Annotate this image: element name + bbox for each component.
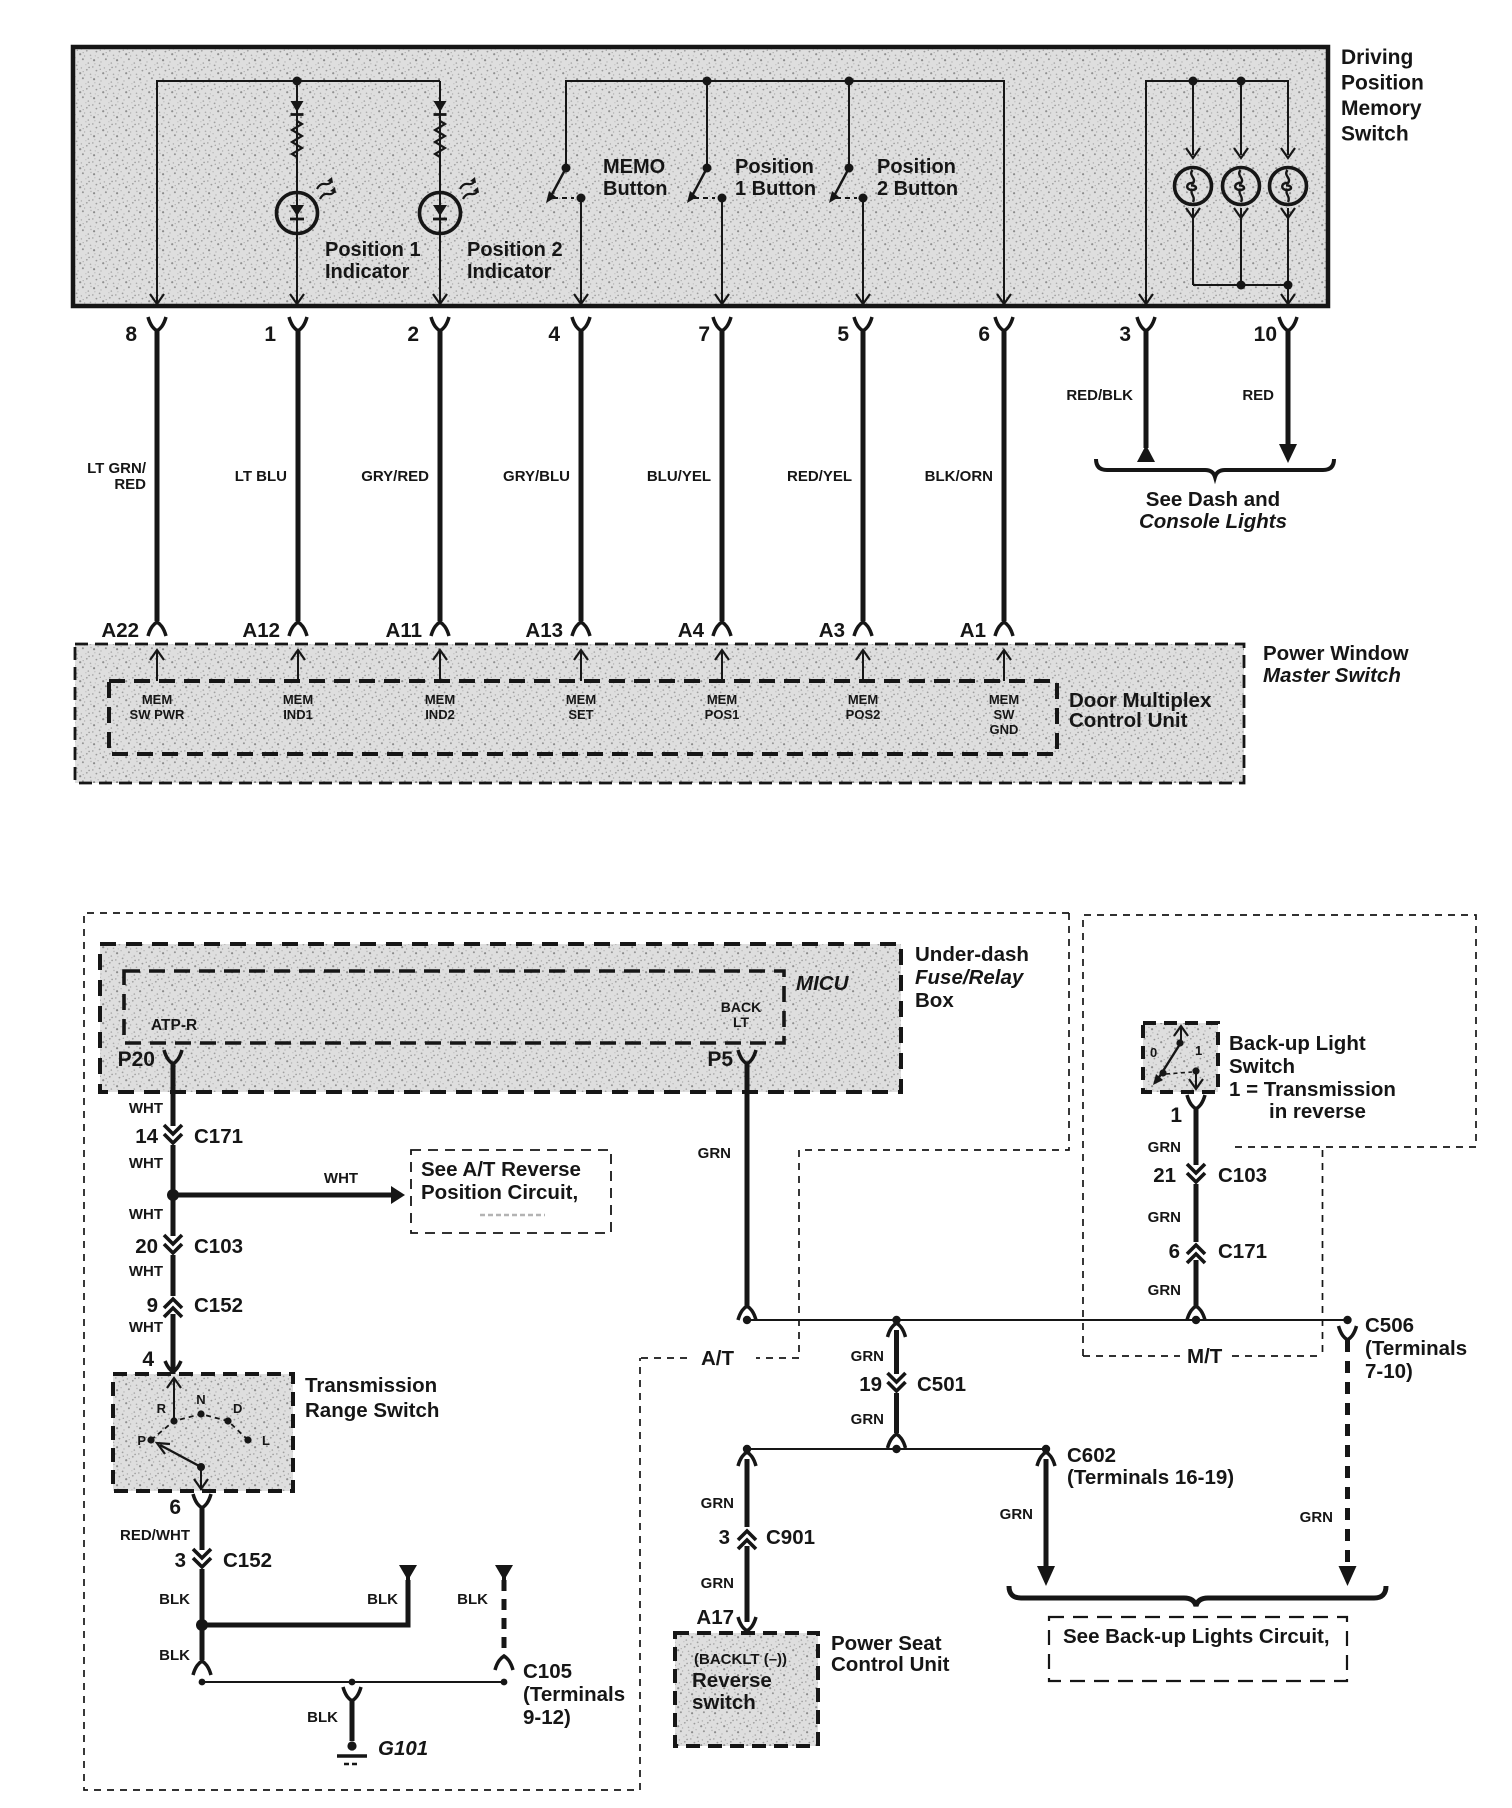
pin 1 wire LT BLU xyxy=(235,317,307,642)
ground G101 xyxy=(337,1741,367,1764)
label back-up light switch xyxy=(1229,1032,1396,1123)
pin A4 MEM POS1 xyxy=(705,650,740,722)
wire pin10 arrow xyxy=(1281,294,1295,304)
svg-text:9-12): 9-12) xyxy=(523,1706,571,1729)
pin 1 back-up switch xyxy=(1170,1095,1205,1127)
junction rail wire xyxy=(743,1316,1352,1324)
svg-text:A22: A22 xyxy=(101,619,139,642)
svg-text:GRY/RED: GRY/RED xyxy=(361,468,429,485)
svg-text:C171: C171 xyxy=(1218,1240,1267,1263)
svg-text:GRN: GRN xyxy=(1300,1509,1333,1526)
svg-text:GRN: GRN xyxy=(1148,1282,1181,1299)
svg-text:0: 0 xyxy=(1150,1045,1157,1060)
pin 2 wire GRY/RED xyxy=(361,317,449,642)
svg-text:8: 8 xyxy=(125,323,137,346)
svg-text:2: 2 xyxy=(407,323,419,346)
svg-text:C602: C602 xyxy=(1067,1444,1116,1467)
svg-text:LT GRN/: LT GRN/ xyxy=(87,460,147,477)
svg-text:L: L xyxy=(262,1433,270,1448)
svg-text:14: 14 xyxy=(135,1125,158,1148)
label C105 terminals 9-12 xyxy=(523,1660,625,1729)
svg-text:SW PWR: SW PWR xyxy=(130,707,185,722)
pin 8 wire LT GRN/RED xyxy=(87,317,166,642)
svg-text:C152: C152 xyxy=(223,1549,272,1572)
label BACKLT reverse switch xyxy=(692,1651,787,1714)
switch MEMO button xyxy=(546,164,588,307)
label power window master switch xyxy=(1263,642,1409,687)
svg-text:MEM: MEM xyxy=(142,692,172,707)
wire GRN P5 down xyxy=(698,1063,756,1320)
svg-text:RED/YEL: RED/YEL xyxy=(787,468,852,485)
svg-text:A17: A17 xyxy=(696,1606,734,1629)
svg-text:BLK: BLK xyxy=(457,1591,488,1608)
svg-text:M/T: M/T xyxy=(1187,1345,1223,1368)
svg-text:A/T: A/T xyxy=(701,1347,735,1370)
svg-text:GRN: GRN xyxy=(1000,1506,1033,1523)
svg-text:MEM: MEM xyxy=(425,692,455,707)
svg-text:Memory: Memory xyxy=(1341,97,1422,120)
svg-text:A3: A3 xyxy=(819,619,845,642)
svg-text:C171: C171 xyxy=(194,1125,243,1148)
back-up light switch contacts xyxy=(1150,1026,1203,1089)
see A/T reverse position circuit box xyxy=(411,1150,611,1233)
svg-text:7: 7 xyxy=(698,323,710,346)
pin 7 wire BLU/YEL xyxy=(647,317,731,642)
svg-text:BLK: BLK xyxy=(367,1591,398,1608)
svg-text:P20: P20 xyxy=(118,1048,155,1071)
wire BLK dashed branch C105 xyxy=(457,1565,513,1670)
door multiplex control unit box xyxy=(109,681,1057,754)
svg-text:Range Switch: Range Switch xyxy=(305,1399,439,1422)
connector C103 pin21 xyxy=(1153,1164,1267,1187)
resistor indicator1 xyxy=(292,121,302,157)
svg-text:POS1: POS1 xyxy=(705,707,740,722)
svg-text:Position 2: Position 2 xyxy=(467,239,563,261)
svg-text:GRY/BLU: GRY/BLU xyxy=(503,468,570,485)
svg-text:SET: SET xyxy=(568,707,593,722)
svg-text:WHT: WHT xyxy=(129,1206,163,1223)
pin 6 below TRS xyxy=(169,1494,211,1519)
wire GRN C501 to rail2 xyxy=(851,1393,906,1448)
svg-text:WHT: WHT xyxy=(129,1319,163,1336)
svg-text:LT: LT xyxy=(733,1014,750,1030)
svg-text:9: 9 xyxy=(147,1294,158,1317)
pin 4 wire GRY/BLU xyxy=(503,317,590,642)
svg-text:MEM: MEM xyxy=(848,692,878,707)
pin 3 wire RED/BLK xyxy=(1066,317,1155,462)
svg-text:A11: A11 xyxy=(386,619,422,642)
brace see dash and console lights xyxy=(1096,459,1334,477)
svg-text:MEM: MEM xyxy=(283,692,313,707)
svg-text:BACK: BACK xyxy=(721,999,761,1015)
svg-text:D: D xyxy=(233,1401,242,1416)
svg-text:Fuse/Relay: Fuse/Relay xyxy=(915,966,1025,989)
node lamp rail 1 xyxy=(1189,77,1198,86)
node rail junction pin1 xyxy=(293,77,302,86)
svg-text:GRN: GRN xyxy=(1148,1139,1181,1156)
svg-text:See Back-up Lights Circuit,: See Back-up Lights Circuit, xyxy=(1063,1625,1330,1648)
svg-text:WHT: WHT xyxy=(129,1263,163,1280)
brace see back-up lights circuit xyxy=(1009,1586,1386,1606)
label BACK LT xyxy=(721,999,761,1030)
svg-text:Switch: Switch xyxy=(1341,123,1409,146)
see back-up lights circuit box xyxy=(1049,1617,1347,1681)
svg-text:Reverse: Reverse xyxy=(692,1669,772,1692)
pin A12 MEM IND1 xyxy=(283,650,313,722)
lamp 3 xyxy=(1270,148,1307,285)
svg-text:3: 3 xyxy=(175,1549,186,1572)
svg-text:C152: C152 xyxy=(194,1294,243,1317)
svg-text:Back-up Light: Back-up Light xyxy=(1229,1032,1366,1055)
transmission range switch contacts xyxy=(137,1378,270,1490)
svg-text:(Terminals 16-19): (Terminals 16-19) xyxy=(1067,1466,1234,1489)
connector C171 pin6 xyxy=(1169,1240,1267,1263)
svg-text:WHT: WHT xyxy=(324,1170,358,1187)
connector C501 pin19 xyxy=(859,1373,966,1396)
node lamp bottom rail xyxy=(1237,281,1246,290)
C105 connector line xyxy=(199,1679,508,1686)
svg-text:20: 20 xyxy=(135,1235,158,1258)
node lamp rail 2 xyxy=(1237,77,1246,86)
connector C152 pin3 xyxy=(175,1549,272,1572)
svg-text:P5: P5 xyxy=(707,1048,733,1071)
svg-text:1 = Transmission: 1 = Transmission xyxy=(1229,1078,1396,1101)
svg-text:See Dash and: See Dash and xyxy=(1146,488,1280,511)
svg-text:5: 5 xyxy=(837,323,849,346)
svg-text:C901: C901 xyxy=(766,1526,815,1549)
wire WHT C152 to TRS xyxy=(129,1314,181,1374)
svg-text:GRN: GRN xyxy=(698,1145,731,1162)
svg-text:RED/WHT: RED/WHT xyxy=(120,1527,190,1544)
MICU box xyxy=(124,971,784,1043)
label see dash and console lights xyxy=(1139,488,1287,533)
wire pin6 arrow xyxy=(997,294,1011,304)
rail2 wire xyxy=(743,1445,1050,1453)
svg-text:C501: C501 xyxy=(917,1373,966,1396)
svg-text:19: 19 xyxy=(859,1373,882,1396)
svg-text:Power Window: Power Window xyxy=(1263,642,1409,665)
svg-text:2 Button: 2 Button xyxy=(877,178,958,200)
wire GRN rail2 to C901 xyxy=(701,1452,756,1527)
pin A13 MEM SET xyxy=(566,650,596,722)
svg-text:GND: GND xyxy=(990,722,1019,737)
pin 5 wire RED/YEL xyxy=(787,317,872,642)
wire WHT C171 to junction xyxy=(129,1145,173,1195)
wire: indicator 2 branch xyxy=(439,81,441,306)
label position 2 button xyxy=(877,156,958,200)
pin 10 wire RED xyxy=(1242,317,1297,463)
svg-text:A1: A1 xyxy=(960,619,986,642)
svg-text:N: N xyxy=(196,1392,205,1407)
svg-text:GRN: GRN xyxy=(701,1495,734,1512)
svg-text:1: 1 xyxy=(264,323,276,346)
svg-text:Position: Position xyxy=(735,156,814,178)
label position 1 indicator xyxy=(325,239,421,283)
svg-text:Position 1: Position 1 xyxy=(325,239,421,261)
svg-text:4: 4 xyxy=(142,1348,154,1371)
label position 2 indicator xyxy=(467,239,563,283)
svg-text:3: 3 xyxy=(1119,323,1131,346)
resistor indicator2 xyxy=(435,121,445,157)
svg-text:Console Lights: Console Lights xyxy=(1139,510,1287,533)
switch position 2 button xyxy=(829,81,870,306)
svg-text:MICU: MICU xyxy=(796,972,850,995)
svg-text:BLK: BLK xyxy=(159,1591,190,1608)
svg-text:Control Unit: Control Unit xyxy=(831,1653,950,1676)
label driving position memory switch xyxy=(1341,46,1424,146)
wire RED/WHT xyxy=(120,1507,202,1550)
svg-text:GRN: GRN xyxy=(1148,1209,1181,1226)
wire WHT C103 to C152 xyxy=(129,1255,173,1296)
svg-text:C103: C103 xyxy=(1218,1164,1267,1187)
svg-text:Under-dash: Under-dash xyxy=(915,943,1029,966)
ground wire BLK xyxy=(307,1687,361,1741)
svg-text:1: 1 xyxy=(1195,1043,1202,1058)
pin A11 MEM IND2 xyxy=(425,650,455,722)
svg-text:Transmission: Transmission xyxy=(305,1374,437,1397)
svg-text:Box: Box xyxy=(915,989,954,1012)
wire WHT P20 to C171 xyxy=(129,1063,173,1126)
svg-text:POS2: POS2 xyxy=(846,707,881,722)
svg-text:(Terminals: (Terminals xyxy=(1365,1337,1467,1360)
svg-text:RED: RED xyxy=(1242,387,1274,404)
svg-text:GRN: GRN xyxy=(851,1411,884,1428)
label door multiplex control unit xyxy=(1069,689,1212,732)
svg-text:RED: RED xyxy=(114,476,146,493)
svg-text:6: 6 xyxy=(978,323,990,346)
svg-text:A13: A13 xyxy=(525,619,563,642)
connector C171 pin14 xyxy=(135,1125,243,1148)
wire GRN rail2 to C602 xyxy=(1000,1452,1055,1586)
svg-text:1: 1 xyxy=(1170,1104,1182,1127)
pin P20 xyxy=(118,1048,182,1071)
lamp 2 xyxy=(1223,81,1260,285)
wire GRN C103 to C171 xyxy=(1148,1184,1196,1242)
svg-text:BLK/ORN: BLK/ORN xyxy=(925,468,993,485)
wire GRN C901 to A17 xyxy=(696,1546,756,1631)
svg-text:MEMO: MEMO xyxy=(603,156,665,178)
node button rail pin5 xyxy=(845,77,854,86)
svg-text:ATP-R: ATP-R xyxy=(151,1017,197,1034)
svg-text:LT BLU: LT BLU xyxy=(235,468,287,485)
svg-text:C105: C105 xyxy=(523,1660,572,1683)
svg-text:A4: A4 xyxy=(678,619,705,642)
svg-text:BLK: BLK xyxy=(307,1709,338,1726)
svg-text:MEM: MEM xyxy=(707,692,737,707)
wire: lamp bottom rail xyxy=(1193,285,1288,306)
node BLK junction xyxy=(196,1619,208,1631)
svg-text:A12: A12 xyxy=(242,619,280,642)
label transmission range switch xyxy=(305,1374,439,1422)
under-dash fuse/relay box xyxy=(100,944,901,1092)
label C506 terminals 7-10 xyxy=(1365,1314,1467,1383)
connector C901 pin3 xyxy=(719,1526,815,1549)
svg-text:WHT: WHT xyxy=(129,1155,163,1172)
svg-text:Indicator: Indicator xyxy=(325,261,410,283)
switch position 1 button xyxy=(687,81,729,306)
pin A22 MEM SW PWR xyxy=(130,650,185,722)
svg-text:7-10): 7-10) xyxy=(1365,1360,1413,1383)
wire GRN C171 to rail xyxy=(1148,1260,1205,1320)
node WHT junction xyxy=(167,1189,179,1201)
label C602 terminals 16-19 xyxy=(1067,1444,1234,1489)
label under-dash fuse/relay box xyxy=(915,943,1029,1012)
lamp 1 xyxy=(1175,81,1212,285)
svg-text:G101: G101 xyxy=(378,1737,428,1760)
svg-text:Control Unit: Control Unit xyxy=(1069,709,1188,732)
svg-text:WHT: WHT xyxy=(129,1100,163,1117)
svg-text:MEM: MEM xyxy=(566,692,596,707)
transmission range switch box xyxy=(113,1374,293,1491)
svg-text:6: 6 xyxy=(1169,1240,1180,1263)
wire BLK junction to C105 xyxy=(159,1625,211,1675)
svg-text:1 Button: 1 Button xyxy=(735,178,816,200)
svg-text:in reverse: in reverse xyxy=(1269,1100,1366,1123)
svg-text:4: 4 xyxy=(548,323,560,346)
label position 1 button xyxy=(735,156,816,200)
svg-text:SW: SW xyxy=(994,707,1016,722)
pin 6 wire BLK/ORN xyxy=(925,317,1013,642)
svg-text:Master Switch: Master Switch xyxy=(1263,664,1401,687)
svg-text:BLK: BLK xyxy=(159,1647,190,1664)
svg-text:switch: switch xyxy=(692,1691,756,1714)
wire: indicator 1 branch xyxy=(296,81,298,306)
svg-text:Button: Button xyxy=(603,178,667,200)
svg-text:Position: Position xyxy=(1341,72,1424,95)
wire GRN to C103 xyxy=(1148,1108,1196,1165)
svg-text:C103: C103 xyxy=(194,1235,243,1258)
connector C152 pin9 xyxy=(147,1294,243,1317)
svg-text:21: 21 xyxy=(1153,1164,1176,1187)
connector C103 pin20 xyxy=(135,1235,243,1258)
wire C506 dashed GRN xyxy=(1300,1326,1357,1586)
wire WHT junction to C103 xyxy=(129,1195,173,1236)
wire WHT branch to A/T reverse position circuit xyxy=(173,1170,405,1204)
pin A3 MEM POS2 xyxy=(846,650,881,722)
wire: left internal rail xyxy=(150,81,440,306)
svg-text:IND2: IND2 xyxy=(425,707,455,722)
svg-text:C506: C506 xyxy=(1365,1314,1414,1337)
wire GRN rail to C501 xyxy=(851,1323,906,1374)
svg-text:Position: Position xyxy=(877,156,956,178)
wire: lamp top rail xyxy=(1146,81,1288,306)
svg-text:See A/T Reverse: See A/T Reverse xyxy=(421,1158,581,1181)
svg-text:(BACKLT (–)): (BACKLT (–)) xyxy=(694,1651,787,1668)
LED position 1 indicator xyxy=(277,177,337,304)
svg-text:BLU/YEL: BLU/YEL xyxy=(647,468,711,485)
LED position 2 indicator xyxy=(420,177,480,304)
svg-text:RED/BLK: RED/BLK xyxy=(1066,387,1133,404)
svg-text:GRN: GRN xyxy=(851,1348,884,1365)
svg-text:10: 10 xyxy=(1254,323,1277,346)
driving position memory switch box xyxy=(73,47,1328,306)
svg-text:Position Circuit,: Position Circuit, xyxy=(421,1181,578,1204)
svg-text:R: R xyxy=(157,1401,167,1416)
diode indicator1 xyxy=(291,101,304,115)
region box A/T left dashed xyxy=(84,913,1069,1790)
svg-text:(Terminals: (Terminals xyxy=(523,1683,625,1706)
back-up light switch box xyxy=(1143,1023,1218,1092)
svg-text:Switch: Switch xyxy=(1229,1055,1295,1078)
label power seat control unit xyxy=(831,1632,950,1676)
svg-text:Power Seat: Power Seat xyxy=(831,1632,942,1655)
region box M/T right dashed xyxy=(1083,915,1476,1356)
wire pin3 arrow xyxy=(1139,294,1153,304)
svg-text:Driving: Driving xyxy=(1341,46,1413,69)
power seat control unit reverse switch box xyxy=(675,1633,818,1746)
node button rail pin7 xyxy=(703,77,712,86)
diode indicator2 xyxy=(434,101,447,115)
svg-text:MEM: MEM xyxy=(989,692,1019,707)
power window master switch box xyxy=(75,644,1244,783)
pin A1 MEM SW GND xyxy=(989,650,1019,737)
wire BLK feed branch xyxy=(202,1565,417,1625)
svg-text:P: P xyxy=(137,1433,146,1448)
wire: button rail xyxy=(566,81,1004,306)
label MEMO button xyxy=(603,156,667,200)
svg-text:6: 6 xyxy=(169,1496,181,1519)
wire BLK to junction xyxy=(159,1569,202,1625)
svg-text:Indicator: Indicator xyxy=(467,261,552,283)
svg-text:GRN: GRN xyxy=(701,1575,734,1592)
pin P5 xyxy=(707,1048,756,1071)
svg-text:3: 3 xyxy=(719,1526,730,1549)
node lamp bottom right xyxy=(1284,281,1293,290)
svg-text:IND1: IND1 xyxy=(283,707,313,722)
